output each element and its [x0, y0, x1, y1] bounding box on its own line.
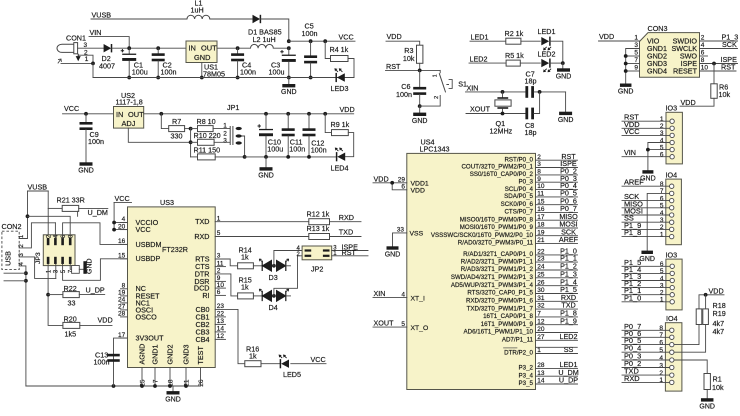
JP3 top pins [46, 234, 74, 245]
node VDD label at CON3 [599, 32, 614, 41]
regulator US2 1117-1.8 [114, 91, 145, 128]
US4 DTR overline [504, 347, 518, 349]
svg-text:10: 10 [701, 65, 709, 72]
junction VIN / C1 [127, 46, 131, 50]
label JP1 [227, 103, 239, 112]
node VDD label mid [340, 105, 355, 114]
ground symbol US3 [165, 386, 181, 403]
svg-text:22: 22 [537, 249, 545, 256]
svg-text:5: 5 [659, 347, 663, 354]
node VCC label mid-left [64, 104, 79, 113]
svg-text:1: 1 [433, 74, 439, 77]
svg-text:GND: GND [258, 172, 274, 179]
US4 right pin rows group P1 [451, 247, 578, 344]
node VCC label above US3 [115, 194, 130, 203]
junction US3 VCC [112, 228, 116, 232]
ground symbol CON3 [618, 84, 634, 96]
CON3 right inside labels [671, 36, 697, 75]
svg-text:4: 4 [660, 275, 664, 282]
capacitor C4 100n [231, 48, 256, 77]
svg-text:RST: RST [721, 63, 736, 72]
node RXD label [330, 213, 362, 222]
junction LED cathodes [561, 61, 565, 65]
svg-text:RTS/32T0_CAP0_P1_5: RTS/32T0_CAP0_P1_5 [467, 290, 533, 297]
connector CON2 USB [2, 222, 22, 270]
wire US1 GND pin [201, 63, 203, 78]
junctions US3 ground rail [112, 384, 188, 388]
ground symbol IO4 upper [639, 251, 655, 263]
svg-text:VDD: VDD [340, 105, 355, 114]
svg-text:LED2: LED2 [470, 54, 488, 63]
junction D3 center [272, 264, 276, 268]
svg-text:26: 26 [537, 279, 545, 286]
svg-text:4: 4 [660, 137, 664, 144]
svg-text:ADJ: ADJ [122, 119, 136, 128]
svg-text:9: 9 [634, 65, 638, 72]
svg-text:5: 5 [660, 144, 664, 151]
IO4 upper pin7 ground wire [647, 193, 669, 250]
svg-text:4: 4 [659, 355, 663, 362]
svg-text:30: 30 [537, 287, 545, 294]
svg-text:GND: GND [165, 396, 181, 403]
svg-text:R/AD0/32T0_PWM3/P0_11: R/AD0/32T0_PWM3/P0_11 [458, 240, 534, 247]
capacitor C8 18p [525, 108, 537, 137]
wire CON3 RESET RST [700, 63, 737, 72]
svg-text:2: 2 [660, 123, 664, 130]
svg-text:AD6/16T1_PWM1/P1_10: AD6/16T1_PWM1/P1_10 [464, 329, 534, 336]
svg-text:U_DP: U_DP [559, 376, 578, 385]
node VDD label at US4 [374, 175, 389, 184]
wire JP3 pin3 down [55, 264, 57, 278]
svg-text:AGND: AGND [138, 344, 147, 365]
junction C12 top [307, 112, 311, 116]
node VIN label [90, 28, 102, 37]
IO4 lower wires [622, 322, 670, 383]
US4 pin 5 XT_O [401, 321, 405, 328]
svg-text:MISO0/16T0_PWM0/P0_8: MISO0/16T0_PWM0/P0_8 [460, 216, 534, 223]
wire VCC to US3 supply pins [114, 202, 131, 229]
svg-text:100n: 100n [88, 137, 104, 146]
svg-text:SCK: SCK [722, 40, 737, 49]
junction VDD US4 [390, 181, 394, 185]
svg-text:GND: GND [385, 252, 401, 259]
wire LED1 cathode [550, 41, 563, 63]
junction C2 bottom [156, 76, 160, 80]
junction VUSB/U_DM [26, 214, 30, 218]
CON1 pin 2 [79, 50, 93, 64]
svg-text:SWD/AD4/32T1_PWM2/P1_3: SWD/AD4/32T1_PWM2/P1_3 [451, 274, 534, 281]
svg-text:100n: 100n [311, 145, 327, 154]
svg-text:TXD: TXD [195, 217, 209, 226]
junction C4 top [236, 46, 240, 50]
svg-text:6: 6 [660, 195, 664, 202]
node VCC label at LED5 [311, 355, 326, 364]
connector IO3 top [660, 104, 683, 164]
svg-text:VDD: VDD [411, 187, 425, 194]
node VDD label at R20 [98, 315, 113, 324]
svg-text:1k5: 1k5 [65, 329, 77, 338]
svg-text:5: 5 [660, 268, 664, 275]
svg-text:OUT: OUT [128, 110, 144, 119]
resistor R14 1k [238, 245, 254, 268]
resistor R9 1k [325, 114, 354, 157]
svg-text:GND: GND [639, 256, 655, 263]
svg-text:R20: R20 [64, 315, 77, 324]
svg-text:IO4: IO4 [666, 170, 678, 179]
wire JP3 pin5 to USBDP [63, 259, 128, 281]
svg-text:12: 12 [217, 333, 225, 340]
wire R14 to D3 [253, 265, 261, 267]
US4 pin 4 XT_I [401, 291, 405, 298]
svg-text:16T1_CAP0/P1_8: 16T1_CAP0/P1_8 [483, 313, 533, 320]
svg-text:1: 1 [85, 56, 89, 63]
wire CON3 SWDIO P1_3 [700, 33, 739, 42]
junction C4 bottom [236, 76, 240, 80]
svg-text:1uH: 1uH [191, 6, 204, 15]
svg-text:RST/P0_0: RST/P0_0 [504, 156, 533, 163]
svg-text:R4 1k: R4 1k [330, 45, 349, 54]
capacitor C5 100n [302, 22, 318, 78]
svg-text:78M05: 78M05 [203, 69, 225, 78]
svg-text:SS0/16T0_CAP0/P0_2: SS0/16T0_CAP0/P0_2 [470, 171, 534, 178]
svg-text:R2 1k: R2 1k [505, 29, 524, 38]
svg-text:GND: GND [618, 89, 634, 96]
svg-text:1: 1 [660, 297, 664, 304]
wire JP3 pin7 to GND block [70, 264, 83, 273]
wire LED2 cathode [550, 62, 563, 64]
svg-text:DTR/P2_0: DTR/P2_0 [504, 350, 533, 357]
svg-text:P3_5: P3_5 [519, 380, 534, 387]
node XIN label at US4 [374, 289, 386, 298]
svg-text:GND: GND [78, 168, 94, 175]
svg-text:1: 1 [223, 122, 227, 129]
svg-text:R7: R7 [172, 117, 181, 126]
wire US3 ground rail [26, 385, 201, 387]
svg-text:GND: GND [412, 118, 428, 125]
ground symbol IO3 top [640, 170, 656, 182]
CON2 pin 3 [19, 252, 56, 278]
jumper JP1 header [223, 122, 242, 145]
svg-text:7: 7 [660, 188, 664, 195]
wire R5 to LED2 [520, 62, 540, 64]
svg-text:2: 2 [660, 290, 664, 297]
junction R22 [46, 293, 50, 297]
wire US3 CB0 to R16 [215, 309, 245, 363]
chip US4 LPC1343 [407, 137, 536, 389]
wire CON1 to GND rail [92, 63, 94, 77]
wire RST [386, 63, 441, 70]
wire LED1 net to R2 [470, 40, 506, 42]
junction JP1 GND rail [243, 155, 247, 159]
connector IO3 lower [660, 250, 682, 310]
wire VUSB to L1 [91, 18, 187, 20]
node VIN label at IO3 [624, 148, 636, 157]
US4 right pin rows group P0 [431, 152, 579, 247]
US3 left pin numbers and stubs [118, 216, 128, 339]
wire L1 to D1 [210, 18, 253, 20]
node RST label [386, 62, 401, 71]
svg-text:1k: 1k [249, 352, 257, 361]
wire VIN to IO3 pin6 [622, 156, 670, 158]
CON3 left pin numbers [634, 35, 638, 72]
svg-text:JP2: JP2 [311, 264, 323, 273]
US4 pin 29 [398, 177, 406, 184]
svg-text:2: 2 [537, 154, 541, 161]
ground symbol R1 [699, 398, 715, 410]
svg-text:2: 2 [659, 370, 663, 377]
CON2 pin 4 [19, 261, 26, 386]
wire R7 junction down [190, 129, 192, 157]
connector IO4 upper [660, 170, 682, 244]
node VCC label top [339, 32, 354, 41]
US4 right pin rows group P2 P3 [504, 345, 579, 387]
svg-text:OUT: OUT [201, 43, 217, 52]
svg-text:USBDP: USBDP [136, 254, 161, 263]
wire D1 to VCC node [261, 19, 289, 41]
svg-text:RXD/32T0_PWM0/P1_6: RXD/32T0_PWM0/P1_6 [466, 298, 534, 305]
svg-text:1k: 1k [241, 282, 249, 291]
svg-text:OSCO: OSCO [136, 312, 158, 321]
junction R7 branch [159, 112, 163, 116]
svg-text:SCK0/P0_6: SCK0/P0_6 [501, 201, 534, 208]
wire XIN to C7 [466, 91, 526, 93]
svg-text:SDA/P0_5: SDA/P0_5 [504, 193, 533, 200]
svg-text:4: 4 [660, 210, 664, 217]
svg-text:R12 1k: R12 1k [307, 209, 330, 218]
US4 pin 6 [401, 184, 405, 191]
US3 bottom pin labels [138, 344, 206, 365]
US3 right pin labels [194, 217, 210, 344]
svg-text:29: 29 [398, 177, 406, 184]
CON3 left inside labels [647, 36, 667, 75]
wire R21 drop to U_DM wire [77, 211, 79, 216]
svg-text:GND: GND [194, 53, 210, 62]
svg-text:CON3: CON3 [648, 24, 668, 33]
svg-text:33: 33 [68, 299, 76, 308]
svg-text:R13 1k: R13 1k [307, 224, 330, 233]
node VDD label at R3 [387, 32, 402, 41]
svg-text:100n: 100n [161, 68, 177, 77]
resistor R8 10 [191, 117, 230, 132]
svg-text:23: 23 [537, 256, 545, 263]
svg-text:LED5: LED5 [283, 370, 301, 379]
svg-text:VIN: VIN [90, 28, 102, 37]
wire US1 OUT to L2 [217, 47, 251, 49]
diode pair D3 [259, 259, 290, 282]
resistor R13 1k [307, 224, 330, 239]
inductor L2 [251, 35, 276, 48]
svg-text:4007: 4007 [99, 62, 115, 71]
svg-text:3: 3 [660, 130, 664, 137]
svg-text:VCC: VCC [311, 355, 326, 364]
resistor R22 33 [48, 284, 105, 308]
capacitor C11 100n [282, 114, 306, 157]
junction US1 GND [200, 76, 204, 80]
wire LED2 net to R5 [469, 62, 506, 64]
svg-text:13: 13 [537, 370, 545, 377]
node VDD label at R6 [681, 98, 696, 107]
svg-text:LPC1343: LPC1343 [420, 145, 450, 154]
wire GND rail JP1 section [245, 156, 337, 158]
diode pair D4 [259, 289, 290, 312]
wire US3 DTR to R15 [215, 274, 237, 296]
svg-text:R10 220: R10 220 [194, 131, 221, 140]
svg-text:XT_I: XT_I [411, 295, 425, 302]
svg-text:10k: 10k [403, 54, 415, 63]
wire VIN [89, 37, 129, 49]
svg-text:RST: RST [342, 248, 357, 257]
svg-text:P1_8: P1_8 [624, 228, 641, 237]
svg-text:LED4: LED4 [331, 164, 349, 173]
node U_DM label [88, 208, 108, 217]
wire VUSB to CON2 pin1 [19, 191, 27, 239]
CON2 pin 1 [19, 234, 25, 238]
svg-text:R8 10: R8 10 [197, 117, 216, 126]
svg-text:TXD: TXD [339, 228, 353, 237]
svg-text:10k: 10k [719, 90, 731, 99]
capacitor C12 100n [303, 114, 327, 157]
capacitor C13 100n [94, 350, 120, 366]
diode D2 4007 [99, 44, 115, 71]
inductor L1 [187, 0, 210, 19]
svg-text:VCC: VCC [339, 32, 354, 41]
node TXD label [330, 228, 362, 237]
resistor R2 1k [505, 29, 524, 44]
wire R16 to LED5 [261, 363, 280, 365]
svg-text:VDD: VDD [387, 32, 402, 41]
junction D4 center [272, 294, 276, 298]
svg-text:R/AD2/32T1_PWM0/P1_1: R/AD2/32T1_PWM0/P1_1 [461, 258, 534, 265]
wire XOUT to US4 [373, 326, 407, 328]
svg-text:3: 3 [537, 161, 541, 168]
ground symbol US4 VSS [385, 246, 401, 258]
svg-text:VCC: VCC [136, 225, 151, 234]
svg-text:RESET: RESET [673, 66, 698, 75]
svg-text:8: 8 [659, 325, 663, 332]
svg-text:LED3: LED3 [331, 84, 349, 93]
wire JP1 pad2 to GND rail [242, 136, 245, 157]
svg-text:1: 1 [537, 347, 541, 354]
svg-text:19: 19 [537, 229, 545, 236]
svg-text:100n: 100n [240, 68, 256, 77]
svg-text:VDD: VDD [709, 286, 724, 295]
connector CON1 power jack [57, 43, 78, 64]
resistor R18 4k7 [674, 309, 702, 345]
svg-text:RXD: RXD [339, 213, 354, 222]
svg-text:11: 11 [537, 191, 544, 198]
svg-text:USBDM: USBDM [136, 240, 162, 249]
svg-text:VDD: VDD [98, 315, 113, 324]
junction C11 bottom [286, 155, 290, 159]
resistor R20 1k5 [63, 315, 112, 339]
svg-text:P3_2: P3_2 [519, 365, 534, 372]
junctions CON3 ground pins [624, 54, 628, 73]
junction C7/C8 right [538, 90, 542, 94]
resistor R11 150 [191, 146, 245, 160]
svg-text:GND: GND [556, 74, 572, 81]
svg-text:RXD: RXD [194, 232, 209, 241]
svg-text:P1_0: P1_0 [624, 293, 641, 302]
capacitor C10 100u [258, 114, 284, 157]
svg-text:16T1_PWM0/P1_9: 16T1_PWM0/P1_9 [481, 321, 534, 328]
svg-text:100u: 100u [132, 68, 148, 77]
node VUSB label [92, 11, 112, 20]
svg-text:10: 10 [537, 183, 545, 190]
LED1 diode [538, 27, 556, 50]
connector CON1 label [66, 34, 86, 43]
junction Q1 top [501, 90, 505, 94]
IO3 lower wires [622, 258, 670, 303]
svg-text:LED2: LED2 [538, 50, 556, 59]
wire US2 ADJ [128, 128, 190, 142]
svg-text:3: 3 [660, 282, 664, 289]
chip US3 FT232R [128, 198, 216, 367]
junction C9 top [84, 112, 88, 116]
svg-text:TXD/32T0_PWM1/P1_7: TXD/32T0_PWM1/P1_7 [467, 305, 534, 312]
svg-text:1: 1 [660, 116, 664, 123]
svg-text:7: 7 [537, 311, 541, 318]
wire CON3 SWO stub [700, 55, 708, 57]
jumper JP2 [297, 246, 332, 273]
svg-text:100u: 100u [269, 68, 285, 77]
wire C7 right [534, 91, 566, 93]
wire US3 TXD to R12 [215, 221, 309, 223]
svg-text:4k7: 4k7 [713, 327, 725, 336]
IO3 top pin4 pin5 to ground [648, 143, 670, 171]
node XIN label [467, 83, 479, 92]
US4 pin 33 VSS to ground [393, 227, 407, 247]
CON3 ground pins wire [626, 49, 640, 84]
svg-text:JP1: JP1 [227, 103, 239, 112]
wire XOUT to C8 [466, 113, 525, 115]
svg-text:R/AD3/32T1_PWM1/P1_2: R/AD3/32T1_PWM1/P1_2 [461, 266, 534, 273]
svg-text:XT_O: XT_O [411, 325, 429, 332]
regulator US1 78M05 [186, 41, 225, 78]
resistor R15 1k [238, 275, 254, 299]
wire XIN to US4 [373, 297, 407, 299]
junction Q1 bottom [501, 112, 505, 116]
junction RST/C6 [418, 69, 422, 73]
CON3 right pin numbers [701, 35, 709, 72]
svg-text:VCC: VCC [64, 104, 79, 113]
junction R4 top [323, 39, 327, 43]
svg-text:8: 8 [660, 181, 664, 188]
svg-text:XOUT: XOUT [374, 319, 395, 328]
svg-text:IN: IN [189, 43, 196, 52]
svg-text:GND2: GND2 [166, 345, 175, 365]
ground symbol below C9 [78, 162, 94, 174]
svg-text:15: 15 [537, 198, 545, 205]
svg-text:R22: R22 [64, 284, 77, 293]
junction CON2 shield a [4, 271, 28, 275]
svg-text:R21 33R: R21 33R [57, 196, 85, 205]
svg-text:100n: 100n [396, 90, 412, 99]
CON2 pin 2 [19, 223, 55, 248]
capacitor C9 100n [80, 114, 105, 163]
svg-text:CTS/P0_7: CTS/P0_7 [504, 209, 533, 216]
svg-text:JP3: JP3 [35, 252, 42, 264]
junction R7/R8 [189, 127, 193, 131]
svg-text:R/AD1/32T1_CAP0/P1_0: R/AD1/32T1_CAP0/P1_0 [463, 251, 533, 258]
svg-text:R5 1k: R5 1k [505, 51, 524, 60]
junction US3 VCCIO [112, 221, 116, 225]
ground symbol crystal [558, 112, 574, 124]
svg-text:TEST: TEST [196, 346, 205, 365]
svg-text:GND3: GND3 [182, 345, 191, 365]
US4 left inside labels [410, 181, 429, 332]
svg-text:AD7/P1_11: AD7/P1_11 [502, 337, 534, 344]
capacitor C2 100n [152, 48, 177, 77]
